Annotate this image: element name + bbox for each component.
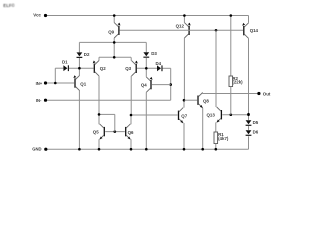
svg-text:D5: D5 [253, 120, 259, 125]
svg-text:IN+: IN+ [36, 81, 43, 86]
svg-text:Q5: Q5 [93, 129, 99, 134]
svg-text:IN-: IN- [36, 98, 42, 103]
svg-text:D3: D3 [151, 51, 157, 56]
svg-text:Out: Out [263, 91, 271, 96]
svg-text:Q9: Q9 [108, 30, 114, 35]
svg-text:D6: D6 [253, 130, 259, 135]
svg-text:Q13: Q13 [207, 112, 216, 117]
svg-text:D4: D4 [156, 61, 162, 66]
svg-text:(22k): (22k) [232, 80, 243, 85]
svg-text:Q7: Q7 [181, 113, 187, 118]
svg-text:Q14: Q14 [250, 28, 259, 33]
svg-text:Q6: Q6 [128, 130, 134, 135]
svg-text:Q8: Q8 [203, 99, 209, 104]
svg-text:GND: GND [32, 147, 41, 152]
svg-text:D1: D1 [62, 60, 68, 65]
svg-text:Q3: Q3 [125, 66, 131, 71]
svg-text:D2: D2 [84, 52, 90, 57]
svg-text:Vcc: Vcc [33, 13, 41, 18]
svg-text:Q1: Q1 [80, 81, 86, 86]
svg-text:Q12: Q12 [176, 24, 185, 29]
svg-text:Q2: Q2 [100, 66, 106, 71]
svg-text:Q4: Q4 [141, 82, 147, 87]
svg-text:(4k7): (4k7) [218, 136, 229, 141]
